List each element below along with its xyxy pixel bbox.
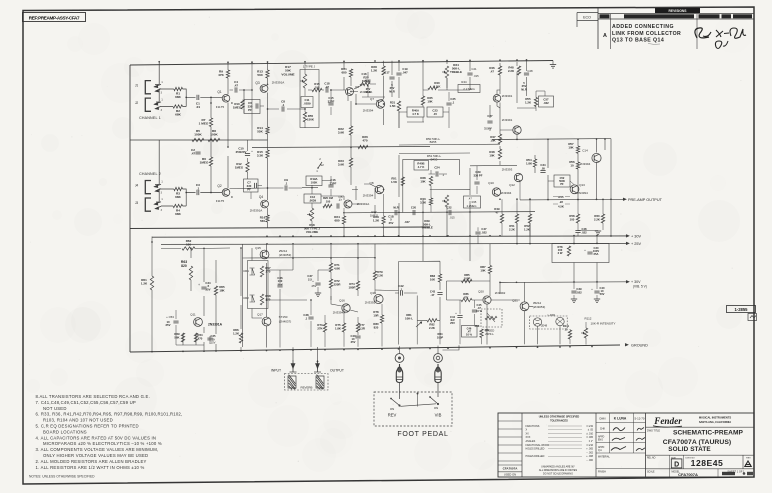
- resistor R88: [475, 324, 490, 344]
- resistor R19A: [306, 176, 322, 186]
- diode CR1: [243, 268, 254, 275]
- reverb output plug: [314, 360, 321, 372]
- lamp L2 and LDR1: [530, 313, 568, 329]
- svg-text:10: 10: [565, 327, 568, 331]
- svg-text:BOARD LOCATIONS: BOARD LOCATIONS: [43, 429, 87, 434]
- node PRE-AMP OUTPUT: [623, 198, 663, 202]
- capacitor C40: [591, 282, 605, 303]
- svg-text:.01: .01: [196, 105, 201, 109]
- transistor Q13: [570, 183, 588, 195]
- svg-text:.47: .47: [490, 70, 494, 74]
- wire: ch1 wiper to Q6: [308, 89, 345, 91]
- resistor R63: [181, 260, 193, 280]
- capacitor C24: [429, 159, 448, 177]
- svg-text:2N3394: 2N3394: [501, 191, 512, 195]
- resistor R64: [194, 333, 203, 342]
- svg-text:4.7 K: 4.7 K: [418, 165, 425, 169]
- wire: [487, 282, 560, 344]
- svg-text:– .000: – .000: [586, 459, 593, 462]
- transistor Q20: [478, 290, 505, 305]
- wire: vibrato box: [395, 244, 490, 345]
- tone network box channel 2: [403, 159, 460, 212]
- wire: +30V vib line: [500, 281, 627, 284]
- wire: [375, 155, 470, 213]
- revision note text: [603, 24, 681, 44]
- svg-text:Q21: Q21: [512, 299, 518, 303]
- transistor Q10: [502, 118, 521, 134]
- wire: [344, 61, 384, 125]
- svg-text:2E48: 2E48: [541, 324, 548, 328]
- svg-text:LINK FROM COLLECTOR: LINK FROM COLLECTOR: [612, 31, 681, 37]
- svg-text:F11T5: F11T5: [216, 105, 225, 109]
- svg-text:1.2K: 1.2K: [373, 219, 380, 223]
- svg-text:.1: .1: [285, 182, 288, 186]
- svg-text:3.3K: 3.3K: [257, 154, 264, 158]
- svg-text:D: D: [674, 461, 679, 468]
- svg-text:820: 820: [181, 264, 187, 268]
- capacitor C21: [467, 67, 479, 78]
- capacitor C35: [207, 334, 216, 344]
- capacitor C34: [540, 163, 546, 172]
- svg-text:10K: 10K: [489, 154, 495, 158]
- svg-text:Q2: Q2: [217, 184, 221, 188]
- node +30V VIB: [626, 280, 647, 289]
- resistor R27: [370, 210, 379, 218]
- ground: [578, 231, 601, 235]
- svg-text:4.7 K: 4.7 K: [412, 112, 419, 116]
- svg-text:2.2K: 2.2K: [508, 69, 515, 73]
- capacitor C18 NLR: [362, 72, 385, 97]
- transistor Q9: [493, 94, 512, 102]
- wire: top supply bus: [130, 61, 553, 66]
- capacitor C3: [196, 183, 200, 195]
- revision block: [598, 8, 754, 49]
- svg-text:C28: C28: [527, 69, 533, 73]
- svg-text:+ C53: + C53: [166, 315, 174, 319]
- capacitor C36: [277, 270, 283, 348]
- resistor R47: [490, 134, 501, 144]
- svg-text:+: +: [251, 149, 253, 153]
- svg-text:2.2MEG: 2.2MEG: [467, 204, 477, 208]
- resistor R3: [174, 187, 183, 199]
- svg-text:100K: 100K: [311, 180, 318, 184]
- resistor R73: [317, 315, 326, 347]
- svg-text:REV: REV: [746, 457, 751, 459]
- svg-text:REF:PREAMP-ASSY-CFA7: REF:PREAMP-ASSY-CFA7: [29, 16, 80, 21]
- resistor R68: [260, 294, 271, 305]
- resistor R40: [428, 81, 441, 90]
- capacitor C45: [472, 300, 483, 325]
- svg-text:Q8: Q8: [369, 181, 373, 185]
- svg-text:C14: C14: [582, 149, 588, 153]
- svg-text:10 %: 10 %: [466, 333, 473, 337]
- resistor R7: [199, 118, 213, 127]
- signoff column: [596, 413, 646, 474]
- svg-text:1MEG: 1MEG: [200, 161, 209, 165]
- svg-text:100: 100: [326, 199, 331, 203]
- resistor R6: [200, 157, 213, 166]
- svg-text:100P: 100P: [464, 277, 471, 281]
- wire: jack shield drop: [155, 62, 161, 102]
- wire: [230, 90, 303, 189]
- node +30V: [626, 235, 641, 239]
- svg-text:FRACTIONAL WOOD: FRACTIONAL WOOD: [526, 444, 550, 447]
- svg-text:NOTES: UNLESS OTHERWISE SPECIF: NOTES: UNLESS OTHERWISE SPECIFIED: [29, 474, 95, 478]
- svg-text:680: 680: [341, 71, 346, 75]
- resistor R79: [373, 258, 384, 294]
- svg-text:.1: .1: [197, 187, 200, 191]
- svg-text:350PF: 350PF: [484, 127, 493, 131]
- switch REV: [388, 383, 401, 418]
- wire: CR box: [248, 261, 269, 309]
- svg-text:R55: R55: [558, 195, 564, 199]
- wire: channel divider: [130, 139, 268, 141]
- svg-text:2N3394A: 2N3394A: [333, 311, 346, 315]
- transistor Q12: [502, 168, 523, 188]
- svg-text:1.2K: 1.2K: [524, 227, 530, 231]
- svg-text:.022: .022: [543, 101, 549, 105]
- resistor R38: [420, 176, 432, 186]
- svg-text:10 %: 10 %: [476, 309, 483, 313]
- svg-text:27K: 27K: [317, 326, 322, 330]
- resistor R10: [233, 100, 244, 110]
- svg-text:10: 10: [570, 164, 574, 168]
- svg-text:3.3R: 3.3R: [359, 326, 365, 330]
- capacitor C25: [446, 97, 456, 105]
- svg-text:10R: 10R: [373, 313, 378, 317]
- svg-text:± 1°: ± 1°: [589, 440, 593, 443]
- svg-text:CHANNEL 2: CHANNEL 2: [139, 172, 161, 176]
- transistor Q6: [346, 85, 373, 96]
- resistor R9: [218, 70, 230, 79]
- resistor R74: [349, 258, 360, 296]
- svg-text:Q4: Q4: [259, 195, 263, 199]
- svg-text:4.5K: 4.5K: [558, 205, 564, 209]
- capacitor C2: [191, 148, 201, 156]
- wire: [392, 60, 470, 98]
- svg-text:SCHEMATIC-PREAMP: SCHEMATIC-PREAMP: [673, 430, 743, 437]
- transistor Q15: [255, 246, 291, 259]
- resistor R15b 100: [312, 82, 322, 92]
- wire: [161, 89, 223, 107]
- resistor R55c: [553, 195, 570, 209]
- svg-text:2N3392: 2N3392: [365, 301, 376, 305]
- wire: [399, 90, 449, 128]
- capacitor C22: [446, 205, 455, 219]
- node +25V: [626, 242, 641, 246]
- svg-text:100: 100: [570, 217, 575, 221]
- svg-text:– .002: – .002: [586, 451, 593, 454]
- resistor R111: [563, 324, 572, 344]
- wire: +25V bus: [161, 243, 627, 244]
- resistor R49: [494, 199, 503, 236]
- svg-text:Q13: Q13: [579, 183, 585, 187]
- svg-text:± 1/32: ± 1/32: [586, 425, 593, 428]
- svg-text:Q A: Q A: [598, 449, 602, 452]
- capacitor C6: [244, 100, 260, 114]
- potentiometer R17 volume: [281, 62, 319, 127]
- svg-text:180R: 180R: [349, 286, 357, 290]
- svg-text:C21: C21: [471, 67, 477, 71]
- svg-text:DWN: DWN: [600, 418, 606, 421]
- svg-text:2.2K: 2.2K: [377, 274, 384, 278]
- svg-text:B455: B455: [430, 140, 437, 144]
- wire: [517, 91, 545, 111]
- svg-text:.47: .47: [431, 293, 435, 297]
- connector J1: [135, 81, 164, 95]
- svg-text:C24: C24: [434, 166, 440, 170]
- svg-text:L-DR1: L-DR1: [548, 313, 556, 317]
- notes text block: [29, 394, 182, 478]
- svg-text:470: 470: [198, 336, 203, 340]
- title block frame: [498, 413, 754, 477]
- svg-text:Q5: Q5: [338, 195, 342, 199]
- capacitor C16: [328, 176, 336, 196]
- connector J3: [135, 198, 164, 212]
- svg-text:330 PF: 330 PF: [473, 173, 482, 177]
- resistor R22: [338, 101, 353, 147]
- wire: reverb feed: [293, 347, 318, 360]
- capacitor C48: [575, 227, 587, 236]
- potentiometer R112 intensity: [581, 317, 616, 345]
- capacitor C18b: [388, 206, 398, 225]
- svg-text:2.2K: 2.2K: [429, 326, 435, 330]
- svg-text:REL NO: REL NO: [647, 458, 656, 460]
- svg-text:TREBLE: TREBLE: [450, 70, 462, 74]
- svg-text:.47: .47: [468, 197, 472, 201]
- svg-text:2 W: 2 W: [558, 251, 563, 255]
- resistor R69: [174, 332, 184, 342]
- wire: [210, 97, 212, 140]
- title reference box: [23, 13, 86, 22]
- svg-text:150K: 150K: [307, 118, 315, 122]
- capacitor C53: [166, 310, 183, 345]
- svg-text:.022: .022: [581, 230, 587, 234]
- wire: [520, 181, 575, 200]
- svg-text:SOLID STATE: SOLID STATE: [668, 446, 711, 453]
- capacitor C12: [304, 194, 321, 203]
- resistor R56: [569, 160, 579, 169]
- resistor R2: [173, 105, 183, 117]
- wire: jack shield drop ch2: [155, 140, 161, 202]
- svg-text:100: 100: [315, 85, 320, 89]
- svg-text:+ .008: + .008: [586, 455, 593, 458]
- resistor R52: [524, 199, 532, 236]
- resistor R84: [437, 332, 443, 339]
- svg-text:3.3K: 3.3K: [420, 201, 427, 205]
- resistor R15: [257, 150, 269, 158]
- svg-text:NOT USED: NOT USED: [43, 406, 67, 411]
- wire: [520, 139, 625, 200]
- svg-text:ENG: ENG: [598, 440, 603, 442]
- capacitor C42: [398, 284, 404, 296]
- svg-text:.47: .47: [325, 85, 329, 89]
- svg-text:R45: R45: [472, 200, 477, 204]
- wire: mid divider: [252, 147, 430, 148]
- ground bus arrow and label: [625, 344, 648, 348]
- resistor R16: [260, 215, 269, 223]
- resistor R55b: [525, 97, 538, 107]
- svg-text:REVERB: REVERB: [301, 386, 313, 390]
- resistor R1: [174, 87, 183, 99]
- foot pedal plug 2: [435, 364, 441, 383]
- resistor R65: [214, 285, 225, 295]
- ECO box: [577, 13, 598, 28]
- svg-text:10K-R INTENSITY: 10K-R INTENSITY: [590, 322, 615, 326]
- capacitor C9: [284, 178, 288, 191]
- svg-text:18K: 18K: [219, 289, 225, 293]
- svg-text:25V: 25V: [389, 221, 394, 225]
- svg-text:DWG TITLE: DWG TITLE: [647, 430, 660, 433]
- capacitor C13: [337, 198, 342, 209]
- capacitor C44: [450, 300, 463, 344]
- resistor R13: [257, 70, 269, 79]
- svg-text:Q10: Q10: [488, 181, 494, 185]
- svg-text:Q17: Q17: [257, 313, 263, 317]
- svg-text:2N3394: 2N3394: [363, 109, 374, 113]
- foot pedal jack 2: [434, 354, 443, 363]
- resistor R61: [141, 276, 154, 290]
- resistor R71: [329, 258, 341, 279]
- capacitor C20: [404, 205, 416, 224]
- transistor Q11b: [488, 181, 511, 196]
- diode CR2: [243, 295, 254, 302]
- wire: [302, 84, 384, 204]
- potentiometer speed control: [481, 309, 502, 336]
- svg-text:Q11: Q11: [190, 313, 196, 317]
- capacitor C23: [427, 107, 443, 117]
- resistor R48: [508, 66, 521, 76]
- svg-text:50V: 50V: [600, 292, 605, 296]
- svg-text:2N3393: 2N3393: [502, 168, 513, 172]
- svg-text:Q7: Q7: [370, 97, 374, 101]
- resistor R87: [480, 265, 491, 274]
- potentiometer R18 volume: [304, 185, 320, 234]
- capacitor C17: [384, 71, 394, 94]
- svg-text:2N3391A: 2N3391A: [208, 323, 223, 327]
- potentiometer R51 bass: [399, 153, 470, 161]
- svg-text:(VIB. 5 V): (VIB. 5 V): [633, 285, 647, 289]
- capacitor C29: [473, 166, 482, 195]
- resistor R43: [420, 197, 433, 213]
- svg-text:ON: ON: [390, 407, 394, 411]
- svg-text:(2N3053): (2N3053): [279, 253, 292, 257]
- svg-text:220R: 220R: [334, 283, 342, 287]
- wire: [268, 108, 303, 110]
- capacitor C28: [521, 69, 533, 91]
- drawing number row: [646, 455, 755, 469]
- capacitor C39: [571, 282, 582, 303]
- resistor R49b: [489, 149, 501, 159]
- resistor R5: [192, 129, 204, 142]
- wire: stage verticals: [252, 248, 262, 318]
- svg-text:2N3394: 2N3394: [580, 162, 591, 166]
- transistor Q11: [190, 313, 222, 327]
- svg-text:47: 47: [495, 210, 499, 214]
- title block left column: [498, 421, 522, 477]
- svg-text:560: 560: [260, 219, 265, 223]
- capacitor C10: [236, 140, 254, 179]
- svg-text:C27: C27: [487, 114, 493, 118]
- resistor R24: [334, 208, 345, 228]
- transistor Q3: [255, 81, 284, 93]
- svg-text:J4: J4: [135, 184, 139, 188]
- wire: bass line ch2b: [470, 164, 517, 166]
- svg-text:NLR: NLR: [389, 89, 395, 93]
- capacitor C19: [396, 67, 408, 75]
- svg-text:10K: 10K: [427, 100, 433, 104]
- transistor Q21: [512, 299, 545, 311]
- wire: [161, 189, 223, 206]
- resistor R54: [526, 158, 537, 167]
- resistor R40B: [414, 161, 429, 171]
- reverb input plug: [290, 360, 297, 372]
- resistor R57: [568, 142, 579, 154]
- svg-text:25V: 25V: [166, 323, 171, 327]
- wire: [497, 90, 517, 139]
- wire: [244, 62, 264, 185]
- svg-text:33PF: 33PF: [330, 181, 337, 185]
- svg-text:C18: C18: [362, 72, 367, 76]
- resistor R83: [430, 274, 442, 282]
- capacitor C38: [303, 300, 313, 347]
- capacitor C7: [244, 179, 259, 199]
- svg-text:2N3394: 2N3394: [363, 194, 374, 198]
- wire: [227, 62, 229, 188]
- svg-text:Q19: Q19: [370, 291, 376, 295]
- foot pedal jack 1: [395, 354, 404, 363]
- resistor R85: [462, 273, 473, 283]
- resistor R86: [461, 292, 472, 302]
- svg-text:Q20: Q20: [478, 290, 484, 294]
- svg-text:.047: .047: [402, 70, 408, 74]
- wire: [417, 320, 440, 344]
- capacitor C11: [301, 97, 313, 108]
- wire: [152, 237, 241, 353]
- svg-text:2.2K: 2.2K: [509, 227, 515, 231]
- svg-text:10K: 10K: [480, 269, 486, 273]
- svg-text:ADDED CONNECTING: ADDED CONNECTING: [612, 24, 674, 30]
- tolerance column: [526, 414, 594, 475]
- wire: [302, 108, 305, 128]
- svg-text:Q13 TO BASE Q14: Q13 TO BASE Q14: [612, 38, 664, 44]
- svg-text:1MEG: 1MEG: [235, 166, 244, 170]
- svg-text:4.8K: 4.8K: [334, 267, 341, 271]
- capacitor C52: [554, 175, 570, 187]
- transistor Q1: [216, 90, 234, 109]
- wire: ground bus: [130, 345, 620, 352]
- resistor R51b 1.5K: [391, 177, 405, 186]
- potentiometer R39 treble: [421, 195, 448, 230]
- svg-text:MUSICAL INSTRUMENTS: MUSICAL INSTRUMENTS: [699, 416, 732, 420]
- svg-text:± .05: ± .05: [588, 429, 594, 432]
- resistor R4: [173, 204, 183, 216]
- svg-text:ALL DIMENSIONS ARE IN INCHES: ALL DIMENSIONS ARE IN INCHES: [539, 469, 578, 472]
- svg-text:1MEG: 1MEG: [233, 106, 242, 110]
- wire: pedal common: [401, 393, 437, 407]
- transistor Q7: [363, 97, 385, 113]
- svg-text:Fender: Fender: [653, 416, 682, 426]
- resistor R25: [360, 76, 371, 86]
- svg-text:DO NOT SCALE DRAWING: DO NOT SCALE DRAWING: [543, 473, 573, 476]
- svg-text:R103, R104 AND 107 NOT USED: R103, R104 AND 107 NOT USED: [43, 418, 113, 423]
- svg-text:10K: 10K: [430, 278, 436, 282]
- svg-text:PF: PF: [560, 182, 564, 186]
- resistor R35: [421, 96, 433, 105]
- wire: bus crossing stubs: [344, 198, 611, 261]
- resistor R66: [233, 328, 243, 343]
- wire: power stage frame: [243, 244, 376, 348]
